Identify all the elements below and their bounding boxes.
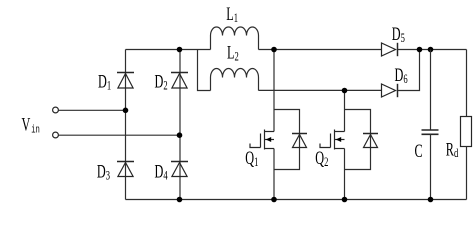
transistor Q1 [250, 130, 274, 150]
wire left bridge leg [125, 50, 127, 200]
wire Q1 drain [273, 50, 275, 132]
wire right bridge leg [179, 50, 181, 200]
terminal Vin top [53, 107, 59, 113]
body diode of Q2 [363, 134, 378, 148]
inductor L1 [211, 27, 259, 49]
wire capacitor bottom leg [430, 134, 432, 199]
svg-text:D3: D3 [97, 162, 110, 183]
diode D3 [117, 162, 134, 177]
label L1 [226, 4, 238, 25]
wire second rail [259, 89, 382, 91]
svg-text:D4: D4 [155, 162, 168, 183]
resistor Rd [461, 117, 472, 147]
svg-text:Q2: Q2 [315, 149, 328, 170]
label D3 [97, 162, 110, 183]
wire Q2 drain [344, 91, 346, 132]
wire Rd top leg [466, 50, 468, 117]
label C [415, 142, 423, 162]
label Q1 [245, 149, 258, 170]
capacitor C [422, 130, 439, 134]
label D4 [155, 162, 168, 183]
transistor Q2 [320, 130, 345, 150]
node top rail / Q1 drain [271, 47, 277, 53]
wire Vin bottom lead [58, 134, 179, 136]
wire Vin top lead [58, 109, 125, 111]
wire top rail middle [259, 49, 382, 51]
node Vin top / left leg [123, 108, 129, 114]
label Rd [446, 140, 459, 160]
node top rail / D2 leg [177, 47, 183, 53]
svg-text:in: in [31, 123, 40, 136]
label D5 [392, 24, 405, 45]
node bottom rail / capacitor [428, 197, 434, 203]
wire top rail right [398, 49, 467, 51]
svg-text:C: C [415, 142, 423, 162]
node bottom rail / Q2 source [342, 197, 348, 203]
wire Q2 source [344, 149, 346, 200]
wire L2 left connector [198, 50, 211, 91]
wire D6 riser [398, 50, 420, 91]
node riser / top rail [417, 47, 423, 53]
label L2 [227, 43, 239, 64]
diode D6 [382, 84, 398, 97]
label Vin subscript [31, 123, 40, 136]
node Vin bottom / right leg [177, 132, 183, 138]
svg-text:D2: D2 [155, 72, 168, 93]
terminal Vin bottom [53, 132, 59, 138]
wire Q1 source [273, 149, 275, 200]
label Vin [22, 115, 31, 135]
body diode of Q1 [292, 134, 307, 148]
svg-text:L2: L2 [227, 43, 239, 64]
wire bottom rail [126, 199, 467, 201]
svg-text:D5: D5 [392, 24, 405, 45]
label D2 [155, 72, 168, 93]
node capacitor / top rail [428, 47, 434, 53]
wire capacitor top leg [430, 50, 432, 131]
node second rail / Q2 drain [342, 88, 348, 94]
diode D2 [171, 73, 188, 89]
svg-text:D1: D1 [98, 72, 111, 93]
diode D5 [382, 43, 398, 56]
svg-text:V: V [22, 115, 31, 135]
diode D1 [117, 73, 134, 89]
svg-text:D6: D6 [395, 65, 408, 86]
wire top rail left [126, 49, 211, 51]
label D6 [395, 65, 408, 86]
svg-text:Rd: Rd [446, 140, 459, 160]
wire Q1 body-diode branch [274, 110, 300, 170]
diode D4 [171, 162, 188, 177]
inductor L2 [211, 69, 259, 91]
node bottom rail / D4 leg [177, 197, 183, 203]
wire Rd bottom leg [466, 147, 468, 200]
label Q2 [315, 149, 328, 170]
label D1 [98, 72, 111, 93]
wire Q2 body-diode branch [345, 110, 371, 170]
svg-text:L1: L1 [226, 4, 238, 25]
svg-text:Q1: Q1 [245, 149, 258, 170]
node bottom rail / Q1 source [271, 197, 277, 203]
